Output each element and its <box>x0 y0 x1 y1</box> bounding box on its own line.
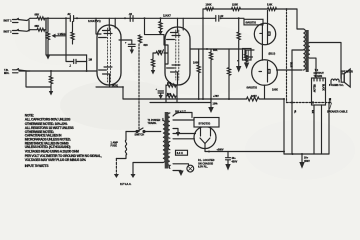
svg-text:350 V.C.T.: 350 V.C.T. <box>175 110 186 113</box>
svg-text:100K: 100K <box>193 62 199 65</box>
svg-text:1M: 1M <box>89 59 92 62</box>
svg-text:6V6GT/G: 6V6GT/G <box>247 87 258 90</box>
svg-text:250: 250 <box>167 82 172 85</box>
svg-text:.02: .02 <box>67 12 71 16</box>
svg-text:820: 820 <box>144 44 149 47</box>
svg-text:5.6K: 5.6K <box>267 3 273 7</box>
svg-text:450V: 450V <box>304 160 310 163</box>
svg-text:TRANS.: TRANS. <box>148 122 157 125</box>
svg-text:BLUE: BLUE <box>290 62 293 68</box>
svg-text:6.3V P.L.: 6.3V P.L. <box>198 166 208 169</box>
svg-text:(BLU): (BLU) <box>269 53 276 56</box>
svg-text:UNLESS NOTED. (K-THOUSAND): UNLESS NOTED. (K-THOUSAND) <box>25 145 71 149</box>
svg-text:6V6GT/G: 6V6GT/G <box>246 21 257 24</box>
svg-text:220K: 220K <box>232 3 238 7</box>
svg-text:.02: .02 <box>129 12 133 16</box>
svg-text:INPUT: 70 WATTS: INPUT: 70 WATTS <box>25 164 50 168</box>
svg-text:68K: 68K <box>35 24 40 28</box>
svg-text:YELLOW: YELLOW <box>312 84 315 93</box>
svg-text:SPEAKER CABLE: SPEAKER CABLE <box>327 110 348 113</box>
svg-text:1M: 1M <box>158 50 161 53</box>
svg-text:40+: 40+ <box>232 157 237 160</box>
svg-text:68K: 68K <box>35 13 40 17</box>
svg-text:10%: 10% <box>213 103 219 106</box>
svg-text:8 OHMS V.C.: 8 OHMS V.C. <box>329 84 344 87</box>
svg-text:1 MEG: 1 MEG <box>58 32 66 36</box>
svg-text:FUSE: FUSE <box>111 145 118 148</box>
svg-text:325V: 325V <box>251 95 257 98</box>
svg-text:5Y3GT/G: 5Y3GT/G <box>199 121 211 125</box>
svg-text:.02: .02 <box>220 14 224 18</box>
svg-text:12AX7(V1): 12AX7(V1) <box>88 19 101 23</box>
svg-text:100K: 100K <box>206 3 212 7</box>
svg-text:100K: 100K <box>272 88 278 91</box>
svg-text:SWITCH: SWITCH <box>135 134 145 137</box>
svg-text:+360V: +360V <box>217 148 224 151</box>
svg-text:117 V.A.C.: 117 V.A.C. <box>120 183 132 186</box>
svg-text:VOLTAGES MAY VARY PLUS OR MINU: VOLTAGES MAY VARY PLUS OR MINUS 10% <box>25 158 86 162</box>
svg-text:MIC.: MIC. <box>4 71 10 75</box>
svg-text:56K: 56K <box>213 49 218 52</box>
svg-text:SPEAKER: SPEAKER <box>341 69 353 73</box>
svg-text:450V: 450V <box>232 161 238 164</box>
svg-text:INST 1: INST 1 <box>4 18 13 22</box>
svg-text:(47K): (47K) <box>112 84 118 87</box>
svg-text:500: 500 <box>167 93 172 96</box>
svg-text:12AX7: 12AX7 <box>163 13 171 17</box>
svg-text:INST 2: INST 2 <box>4 29 13 33</box>
svg-text:BLUE: BLUE <box>328 98 331 104</box>
svg-text:TRANS: TRANS <box>314 75 323 78</box>
svg-text:BLACK: BLACK <box>321 84 324 91</box>
svg-text:+78V: +78V <box>213 95 219 98</box>
svg-text:6.3 V.: 6.3 V. <box>177 152 184 155</box>
